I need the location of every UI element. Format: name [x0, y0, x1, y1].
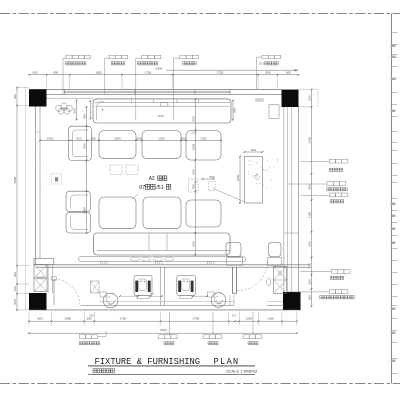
left counter top: [34, 259, 54, 265]
svg-text:1800: 1800: [83, 207, 87, 214]
door swing arc left: [54, 279, 80, 305]
callout right 4 label: [330, 276, 333, 279]
svg-text:550: 550: [191, 184, 195, 189]
svg-text:600: 600: [13, 272, 17, 277]
left cabinet tiny label: [36, 277, 45, 280]
partition wall below sofa: [36, 264, 310, 266]
svg-text:300: 300: [136, 136, 141, 140]
sofa top middle notch: [161, 103, 168, 107]
dim right extension ticks: [299, 89, 319, 91]
callout bottom 2 leader: [169, 312, 171, 335]
stool dashed mid: [189, 179, 199, 192]
tv cabinet right: [245, 157, 263, 204]
svg-text:550: 550: [232, 313, 237, 317]
sofa top seat tick: [101, 109, 104, 111]
callout top 3 leader: [136, 58, 142, 120]
svg-text:1800: 1800: [95, 70, 102, 74]
svg-text:2750: 2750: [217, 70, 224, 74]
top wall inner line: [47, 93, 282, 95]
callout bottom 4 leader: [252, 312, 254, 335]
table row1 #2: [142, 131, 181, 159]
callout right 2 boxes: [327, 182, 333, 186]
callout right 1 label: [329, 168, 332, 171]
callout bottom 3 leader: [212, 312, 214, 335]
dim top extension lines: [46, 75, 48, 89]
callout right 4 leader: [300, 271, 332, 273]
svg-text:600: 600: [308, 263, 312, 268]
svg-text:550: 550: [191, 169, 195, 174]
right wall cross tick: [284, 232, 299, 234]
tv cabinet dotted hatch: [256, 161, 259, 164]
bottom corridor inner line: [99, 300, 234, 302]
left wall tick: [35, 131, 42, 133]
armchair right near door 1: [226, 243, 241, 257]
left tall cabinet with cross: [34, 265, 47, 292]
sofa top left arm: [97, 102, 104, 121]
stool dashed right: [209, 182, 216, 191]
svg-text:550: 550: [191, 116, 195, 121]
svg-text:900: 900: [308, 184, 312, 189]
corridor mini dim right: [193, 295, 207, 297]
callout right 2 leader: [288, 183, 327, 185]
wall fixture 2: [177, 276, 196, 296]
callout top 1 label: [65, 62, 68, 65]
title block tiny text marks: [391, 45, 396, 47]
dim top total 9300 line: [166, 69, 296, 71]
ledge leg pairs: [100, 262, 102, 265]
table row1 #3: [186, 131, 221, 161]
callout top 5 boxes: [262, 55, 268, 59]
door swing arc right: [237, 261, 268, 291]
svg-text:SCALE 1:50@A3: SCALE 1:50@A3: [226, 368, 258, 373]
wall fixture 2 dark bars: [178, 281, 181, 292]
callout top 1 boxes: [66, 55, 72, 59]
callout bottom 3 label: [208, 342, 211, 345]
dim right chain: [311, 90, 313, 307]
svg-text:880: 880: [37, 317, 42, 321]
svg-text:550: 550: [76, 136, 81, 140]
stool dashed pair: [110, 165, 122, 174]
sofa long top: [93, 99, 231, 123]
dim tv cabinet height: [239, 157, 241, 204]
svg-text:550: 550: [13, 299, 17, 304]
svg-text:550: 550: [91, 136, 96, 140]
column top-right: [282, 90, 299, 107]
svg-text:600: 600: [13, 94, 17, 99]
svg-text:550: 550: [209, 175, 214, 179]
svg-text:1750: 1750: [145, 70, 152, 74]
svg-text:300: 300: [181, 136, 186, 140]
svg-text:600: 600: [286, 70, 291, 74]
callout top 2 label: [111, 62, 114, 65]
callout top 4 leader: [173, 58, 180, 120]
top wall outer line: [29, 88, 299, 90]
svg-text:A2: A2: [149, 176, 155, 182]
callout bottom 3 boxes: [203, 335, 209, 339]
corridor partition hatched: [91, 281, 100, 293]
sofa long bottom: [94, 233, 231, 255]
callout right 2 label: [327, 188, 330, 191]
svg-text:2780: 2780: [120, 317, 127, 321]
sofa top back band lines: [95, 102, 230, 104]
svg-text:600: 600: [308, 95, 312, 100]
shaft box with cross right: [274, 267, 287, 294]
callout bottom 1 leader: [98, 331, 106, 337]
wall fixture 1 dark bars: [135, 281, 138, 292]
dim bottom total 9300: [29, 332, 297, 334]
callout top 5 leader: [257, 57, 263, 89]
svg-text:/51: /51: [156, 185, 164, 191]
svg-text:9300: 9300: [160, 328, 167, 332]
dim top segment chain: [29, 74, 298, 76]
right wall lines: [283, 107, 285, 292]
svg-text:600: 600: [233, 108, 237, 113]
table row1 #3 hatch: [191, 132, 194, 135]
door knob fixture right: [267, 278, 271, 285]
left cabinet side lines: [47, 265, 49, 293]
callout bottom 1 label: [79, 342, 82, 345]
callout bottom 4 boxes: [243, 335, 249, 339]
svg-text:1080: 1080: [64, 317, 71, 321]
svg-text:1000: 1000: [267, 317, 274, 321]
svg-text:800: 800: [53, 70, 58, 74]
table row2 #3: [186, 200, 221, 227]
cushion ovals: [130, 257, 139, 261]
callout bottom 2 boxes: [159, 335, 165, 339]
svg-text:1300: 1300: [114, 136, 121, 140]
svg-text:330: 330: [13, 286, 17, 291]
dim interior vertical left: [86, 107, 88, 233]
top wall cabinet end caps: [64, 89, 66, 94]
top wall cabinet band: [65, 91, 231, 93]
sofa top dividers: [131, 99, 133, 103]
svg-text:800: 800: [265, 70, 270, 74]
svg-text:1050: 1050: [191, 143, 195, 150]
svg-text:550: 550: [89, 313, 94, 317]
sofa bottom ledge band: [79, 257, 246, 262]
callout right 3 leader: [300, 194, 329, 196]
callout top 3 label: [137, 62, 140, 65]
callout right 3 label: [330, 200, 333, 203]
table row2 #1: [99, 197, 136, 229]
svg-text:FIXTURE & FURNISHING: FIXTURE & FURNISHING: [95, 357, 201, 367]
dim interior horizontal through tables: [40, 139, 221, 141]
left wall lines: [35, 107, 37, 265]
svg-text:9300: 9300: [156, 66, 163, 70]
armchair left 1: [68, 126, 91, 160]
svg-text:600: 600: [73, 108, 77, 113]
corridor mini dim left: [120, 295, 138, 297]
table row1 #1: [99, 131, 136, 159]
sheet bottom chain line: [0, 383, 400, 385]
sheet top chain line: [0, 13, 400, 15]
callout bottom 1 boxes: [79, 335, 85, 339]
title block row ticks: [392, 32, 398, 34]
svg-text:600: 600: [32, 70, 37, 74]
svg-text:25.9: 25.9: [259, 61, 265, 65]
dim bottom segments: [29, 320, 297, 322]
title chinese label: [93, 369, 97, 373]
svg-text:5800: 5800: [13, 176, 17, 183]
floor spiral fixture right: [211, 293, 226, 308]
callout right 4 boxes: [332, 270, 338, 274]
callout top 3 boxes: [141, 55, 148, 59]
callout right 5 leader: [288, 291, 330, 293]
svg-text:2780: 2780: [193, 317, 200, 321]
svg-text:550: 550: [83, 143, 87, 148]
svg-text:1300: 1300: [158, 136, 165, 140]
dim bottom extension lines: [28, 312, 30, 326]
left wall speckles: [37, 144, 44, 167]
screen position tiny label: [256, 99, 258, 102]
svg-text:07: 07: [139, 185, 145, 191]
svg-text:PLAN: PLAN: [214, 357, 240, 367]
svg-text:1100: 1100: [308, 211, 312, 218]
column bottom-right: [283, 292, 301, 310]
callout top 2 leader: [105, 58, 109, 94]
svg-text:1000: 1000: [47, 136, 54, 140]
bottom outer wall: [81, 305, 234, 307]
tv cabinet inner symbol: [255, 175, 259, 179]
top wall counter stub line: [47, 97, 94, 99]
dim sofa left 600: [76, 101, 78, 120]
dim sofa left inner: [89, 101, 91, 119]
svg-text:550: 550: [191, 241, 195, 246]
door leaf left: [53, 279, 55, 305]
armchair right near door 2: [269, 243, 282, 257]
callout right 5 label: [320, 296, 323, 299]
armchair left pair upper: [66, 191, 91, 212]
corridor divider right / door jamb: [232, 267, 234, 293]
callout right 1 leader: [300, 161, 329, 163]
dim tv cabinet width: [245, 151, 263, 153]
svg-text:1000: 1000: [246, 317, 253, 321]
svg-text:1500: 1500: [236, 174, 240, 181]
dim sofa right 600: [232, 101, 234, 120]
svg-text:600: 600: [83, 114, 87, 119]
corridor divider middle: [160, 267, 162, 305]
dim left second extension line: [25, 86, 27, 310]
callout top 2 boxes: [109, 55, 115, 59]
svg-text:900: 900: [308, 241, 312, 246]
title underline 2: [88, 374, 255, 376]
plant pot top-left: [56, 105, 62, 111]
callout right 5 boxes: [329, 290, 335, 294]
callout right 3 boxes: [329, 193, 335, 197]
armchair left pair lower: [66, 212, 91, 233]
column top-left: [29, 90, 47, 107]
svg-text:1300: 1300: [200, 136, 207, 140]
callout top 4 label: [183, 62, 186, 65]
title block right border: [391, 14, 393, 384]
table row2 #2: [143, 197, 181, 229]
callout top 4 boxes: [180, 55, 186, 59]
dim left chain: [16, 88, 18, 310]
stool leader line: [213, 188, 244, 202]
svg-text:600: 600: [251, 148, 256, 152]
callout top 1 leader: [63, 58, 66, 94]
column bottom-left: [29, 293, 47, 310]
svg-text:2300: 2300: [308, 136, 312, 143]
svg-text:4600: 4600: [157, 114, 164, 118]
room label leader: [132, 194, 139, 200]
svg-text:600: 600: [308, 295, 312, 300]
callout bottom 4 label: [248, 342, 251, 345]
wall niche symbol left: [52, 174, 62, 185]
svg-text:500: 500: [308, 279, 312, 284]
title underline 1: [88, 365, 255, 367]
callout right 1 boxes: [329, 159, 335, 163]
wall fixture 1: [134, 276, 152, 296]
dim stool 550: [203, 178, 214, 180]
callout bottom 2 label: [164, 342, 167, 345]
floor spiral fixture left: [103, 293, 118, 308]
dim interior vertical middle: [194, 99, 196, 255]
dim left extension ticks: [17, 87, 29, 89]
wall pilaster top-right: [269, 105, 279, 119]
top wall cabinet dividers: [134, 89, 136, 94]
